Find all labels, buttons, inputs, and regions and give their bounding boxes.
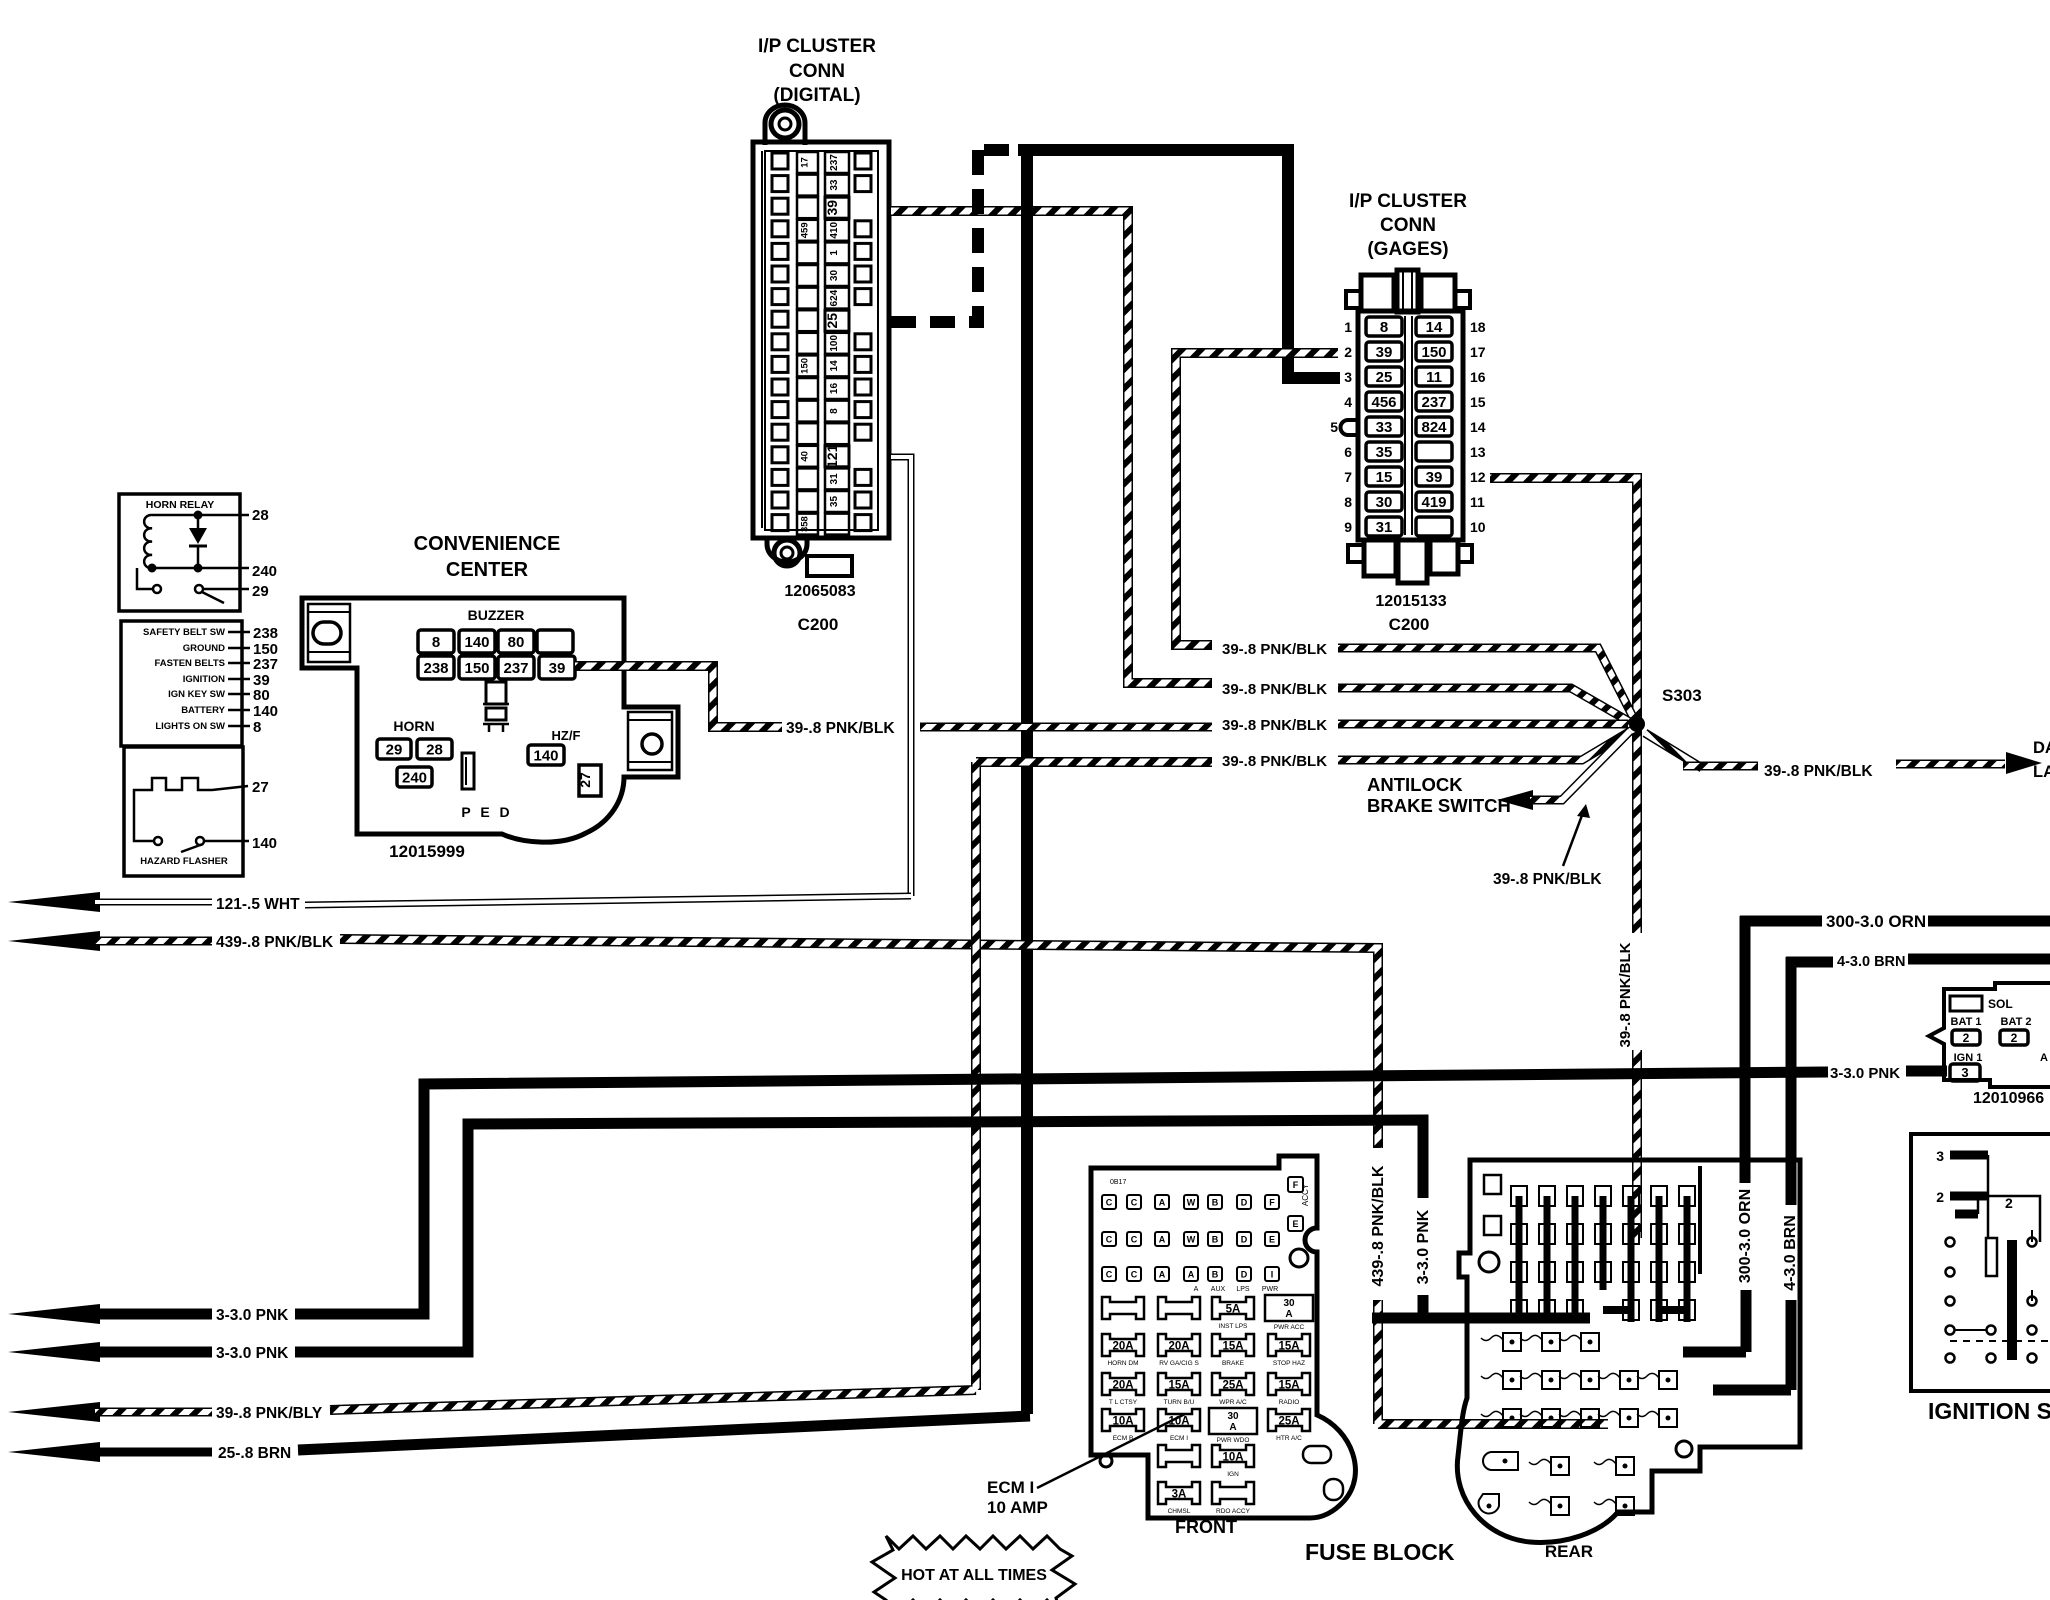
svg-text:FRONT: FRONT xyxy=(1175,1517,1237,1537)
svg-text:IGNITION SW: IGNITION SW xyxy=(1928,1398,2050,1424)
svg-text:39-.8 PNK/BLK: 39-.8 PNK/BLK xyxy=(786,720,895,737)
svg-text:INST LPS: INST LPS xyxy=(1219,1323,1248,1330)
svg-text:240: 240 xyxy=(402,769,427,786)
svg-text:RDO ACCY: RDO ACCY xyxy=(1216,1508,1251,1515)
svg-text:P E D: P E D xyxy=(461,804,512,820)
svg-text:ECM I: ECM I xyxy=(987,1478,1034,1497)
svg-text:1: 1 xyxy=(829,250,840,256)
svg-text:A: A xyxy=(1229,1422,1236,1433)
svg-text:2: 2 xyxy=(1344,344,1352,360)
svg-text:18: 18 xyxy=(1470,319,1486,335)
svg-text:14: 14 xyxy=(829,360,840,372)
svg-text:15A: 15A xyxy=(1168,1380,1189,1392)
svg-text:E: E xyxy=(1292,1219,1298,1229)
svg-text:12010966: 12010966 xyxy=(1973,1090,2044,1107)
svg-text:10 AMP: 10 AMP xyxy=(987,1498,1048,1517)
svg-text:HORN DM: HORN DM xyxy=(1107,1360,1138,1367)
svg-text:D: D xyxy=(1241,1270,1248,1280)
svg-text:39-.8 PNK/BLK: 39-.8 PNK/BLK xyxy=(1222,641,1327,658)
svg-text:15A: 15A xyxy=(1278,1380,1299,1392)
svg-text:27: 27 xyxy=(252,779,269,796)
svg-text:S303: S303 xyxy=(1662,686,1702,705)
svg-text:12065083: 12065083 xyxy=(784,583,855,600)
svg-text:IGN: IGN xyxy=(1227,1471,1239,1478)
svg-text:238: 238 xyxy=(423,660,448,677)
svg-text:A: A xyxy=(1188,1270,1195,1280)
svg-text:121: 121 xyxy=(824,444,840,468)
svg-text:4-3.0 BRN: 4-3.0 BRN xyxy=(1837,954,1906,970)
svg-text:237: 237 xyxy=(829,154,840,171)
svg-text:IGNITION: IGNITION xyxy=(183,674,225,685)
svg-text:REAR: REAR xyxy=(1545,1542,1593,1561)
svg-text:10A: 10A xyxy=(1222,1452,1243,1464)
svg-text:39: 39 xyxy=(1376,344,1393,361)
svg-text:WPR A/C: WPR A/C xyxy=(1219,1399,1247,1406)
svg-text:PWR ACC: PWR ACC xyxy=(1274,1324,1305,1331)
svg-text:12015133: 12015133 xyxy=(1375,593,1446,610)
svg-text:BRAKE: BRAKE xyxy=(1222,1360,1245,1367)
svg-text:456: 456 xyxy=(1371,394,1396,411)
svg-text:16: 16 xyxy=(829,383,840,395)
svg-text:BRAKE SWITCH: BRAKE SWITCH xyxy=(1367,795,1511,816)
svg-text:CONN: CONN xyxy=(1380,215,1436,236)
svg-text:15: 15 xyxy=(1470,394,1486,410)
svg-text:20A: 20A xyxy=(1168,1341,1189,1353)
svg-text:33: 33 xyxy=(829,179,840,191)
svg-text:I/P CLUSTER: I/P CLUSTER xyxy=(1349,191,1467,212)
svg-text:3: 3 xyxy=(1961,1065,1968,1080)
svg-text:240: 240 xyxy=(252,563,277,580)
svg-text:39: 39 xyxy=(549,660,566,677)
svg-text:A: A xyxy=(2040,1052,2048,1064)
svg-text:BAT 1: BAT 1 xyxy=(1951,1016,1982,1028)
svg-text:DA: DA xyxy=(2033,739,2050,757)
svg-text:IGN 1: IGN 1 xyxy=(1954,1052,1983,1064)
svg-text:39: 39 xyxy=(1426,469,1443,486)
svg-text:150: 150 xyxy=(464,660,489,677)
svg-text:CENTER: CENTER xyxy=(446,559,529,581)
svg-text:2: 2 xyxy=(1963,1031,1970,1045)
svg-text:35: 35 xyxy=(829,496,840,508)
svg-text:A: A xyxy=(1159,1235,1166,1245)
svg-text:ANTILOCK: ANTILOCK xyxy=(1367,774,1463,795)
svg-text:LPS: LPS xyxy=(1236,1286,1250,1293)
svg-text:39-.8 PNK/BLK: 39-.8 PNK/BLK xyxy=(1222,753,1327,770)
svg-text:140: 140 xyxy=(252,835,277,852)
svg-text:29: 29 xyxy=(386,741,403,758)
svg-text:39: 39 xyxy=(824,200,840,216)
svg-text:30: 30 xyxy=(1376,494,1393,511)
svg-text:(GAGES): (GAGES) xyxy=(1367,239,1448,260)
svg-text:AUX: AUX xyxy=(1211,1286,1226,1293)
svg-text:HOT AT ALL TIMES: HOT AT ALL TIMES xyxy=(901,1567,1047,1584)
svg-text:17: 17 xyxy=(800,157,811,168)
svg-text:2: 2 xyxy=(2005,1195,2013,1211)
svg-text:11: 11 xyxy=(1426,369,1442,386)
svg-text:RV GA/CIG S: RV GA/CIG S xyxy=(1159,1360,1199,1367)
svg-text:39-.8 PNK/BLK: 39-.8 PNK/BLK xyxy=(1222,681,1327,698)
svg-text:12: 12 xyxy=(1470,469,1486,485)
svg-text:16: 16 xyxy=(1470,369,1486,385)
svg-text:LA: LA xyxy=(2033,763,2050,781)
svg-text:1: 1 xyxy=(1344,319,1352,335)
svg-text:5A: 5A xyxy=(1226,1304,1241,1316)
svg-text:4: 4 xyxy=(1344,394,1352,410)
svg-text:121-.5 WHT: 121-.5 WHT xyxy=(216,896,300,913)
svg-text:15: 15 xyxy=(1376,469,1393,486)
svg-text:30: 30 xyxy=(829,270,840,282)
svg-text:SOL: SOL xyxy=(1988,997,2013,1011)
svg-text:B: B xyxy=(1212,1270,1219,1280)
svg-text:14: 14 xyxy=(1470,419,1486,435)
svg-text:237: 237 xyxy=(1421,394,1446,411)
svg-text:HZ/F: HZ/F xyxy=(552,728,581,743)
svg-text:150: 150 xyxy=(1421,344,1446,361)
svg-text:W: W xyxy=(1187,1198,1196,1208)
svg-text:HORN: HORN xyxy=(393,718,434,734)
svg-text:31: 31 xyxy=(829,473,840,485)
svg-text:W: W xyxy=(1187,1235,1196,1245)
svg-text:HAZARD FLASHER: HAZARD FLASHER xyxy=(140,856,228,867)
svg-text:439-.8 PNK/BLK: 439-.8 PNK/BLK xyxy=(1370,1165,1387,1286)
svg-text:2: 2 xyxy=(2011,1031,2018,1045)
svg-text:140: 140 xyxy=(533,747,558,764)
svg-text:300-3.0 ORN: 300-3.0 ORN xyxy=(1737,1189,1754,1283)
svg-text:8: 8 xyxy=(829,408,840,414)
svg-text:C200: C200 xyxy=(1389,615,1430,634)
svg-text:237: 237 xyxy=(253,656,278,673)
svg-text:RADIO: RADIO xyxy=(1279,1399,1300,1406)
svg-text:358: 358 xyxy=(800,516,811,532)
svg-text:8: 8 xyxy=(1344,494,1352,510)
svg-text:25A: 25A xyxy=(1278,1416,1299,1428)
svg-text:20A: 20A xyxy=(1112,1341,1133,1353)
svg-text:100: 100 xyxy=(829,335,840,352)
svg-text:0B17: 0B17 xyxy=(1110,1179,1126,1186)
svg-text:300-3.0 ORN: 300-3.0 ORN xyxy=(1826,912,1926,931)
svg-text:150: 150 xyxy=(800,358,811,374)
svg-text:10A: 10A xyxy=(1112,1416,1133,1428)
svg-text:31: 31 xyxy=(1376,519,1393,536)
svg-text:25A: 25A xyxy=(1222,1380,1243,1392)
svg-text:BAT 2: BAT 2 xyxy=(2001,1016,2032,1028)
svg-text:9: 9 xyxy=(1344,519,1352,535)
svg-text:39-.8 PNK/BLK: 39-.8 PNK/BLK xyxy=(1617,942,1634,1047)
svg-text:B: B xyxy=(1212,1198,1219,1208)
svg-text:ECM I: ECM I xyxy=(1170,1435,1188,1442)
svg-text:80: 80 xyxy=(508,634,525,651)
svg-text:140: 140 xyxy=(253,703,278,720)
svg-text:7: 7 xyxy=(1344,469,1352,485)
svg-text:F: F xyxy=(1293,1180,1299,1190)
svg-text:A: A xyxy=(1194,1286,1199,1293)
svg-text:3: 3 xyxy=(1344,369,1352,385)
svg-text:C200: C200 xyxy=(798,615,839,634)
svg-text:6: 6 xyxy=(1344,444,1352,460)
svg-text:CHMSL: CHMSL xyxy=(1168,1508,1191,1515)
svg-text:8: 8 xyxy=(1380,319,1388,336)
svg-text:15A: 15A xyxy=(1278,1341,1299,1353)
svg-text:30: 30 xyxy=(1283,1298,1295,1309)
svg-text:CONN: CONN xyxy=(789,61,845,82)
svg-text:39-.8 PNK/BLY: 39-.8 PNK/BLY xyxy=(216,1405,323,1422)
svg-text:8: 8 xyxy=(432,634,440,651)
svg-text:29: 29 xyxy=(252,583,269,600)
svg-text:SAFETY BELT SW: SAFETY BELT SW xyxy=(143,627,225,638)
svg-text:3-3.0 PNK: 3-3.0 PNK xyxy=(216,1307,289,1324)
svg-text:17: 17 xyxy=(1470,344,1486,360)
svg-text:PWR: PWR xyxy=(1262,1286,1278,1293)
svg-text:8: 8 xyxy=(253,719,261,736)
svg-text:27: 27 xyxy=(577,772,593,788)
svg-text:14: 14 xyxy=(1426,319,1443,336)
svg-text:C: C xyxy=(1131,1198,1138,1208)
svg-text:3-3.0 PNK: 3-3.0 PNK xyxy=(216,1345,289,1362)
svg-text:824: 824 xyxy=(1421,419,1447,436)
svg-text:5: 5 xyxy=(1330,419,1338,435)
svg-text:624: 624 xyxy=(829,289,840,306)
svg-text:30: 30 xyxy=(1227,1411,1239,1422)
svg-text:33: 33 xyxy=(1376,419,1393,436)
svg-text:F: F xyxy=(1269,1198,1275,1208)
svg-text:4-3.0 BRN: 4-3.0 BRN xyxy=(1782,1215,1799,1291)
svg-text:25-.8 BRN: 25-.8 BRN xyxy=(218,1445,291,1462)
svg-text:11: 11 xyxy=(1470,494,1485,510)
svg-text:GROUND: GROUND xyxy=(183,643,225,654)
svg-text:CONVENIENCE: CONVENIENCE xyxy=(414,533,561,555)
svg-text:T L CTSY: T L CTSY xyxy=(1109,1399,1138,1406)
svg-text:3A: 3A xyxy=(1172,1489,1187,1501)
svg-text:I: I xyxy=(1271,1270,1274,1280)
svg-text:I/P CLUSTER: I/P CLUSTER xyxy=(758,36,876,57)
svg-text:D: D xyxy=(1241,1198,1248,1208)
svg-text:PWR WDO: PWR WDO xyxy=(1217,1437,1250,1444)
svg-text:FUSE BLOCK: FUSE BLOCK xyxy=(1305,1539,1455,1565)
svg-text:C: C xyxy=(1106,1198,1113,1208)
svg-text:459: 459 xyxy=(800,222,811,238)
svg-text:410: 410 xyxy=(829,222,840,239)
svg-text:3-3.0 PNK: 3-3.0 PNK xyxy=(1415,1209,1432,1284)
svg-text:140: 140 xyxy=(464,634,489,651)
svg-text:BUZZER: BUZZER xyxy=(468,607,525,623)
svg-text:35: 35 xyxy=(1376,444,1393,461)
svg-text:ACCY: ACCY xyxy=(1301,1183,1310,1206)
svg-text:E: E xyxy=(1269,1235,1275,1245)
svg-text:LIGHTS ON SW: LIGHTS ON SW xyxy=(155,721,225,732)
svg-text:39-.8 PNK/BLK: 39-.8 PNK/BLK xyxy=(1222,717,1327,734)
svg-text:25: 25 xyxy=(824,313,840,329)
svg-text:12015999: 12015999 xyxy=(389,842,465,861)
svg-text:C: C xyxy=(1131,1235,1138,1245)
svg-text:2: 2 xyxy=(1936,1189,1944,1205)
svg-text:HORN RELAY: HORN RELAY xyxy=(146,499,214,511)
svg-text:FASTEN BELTS: FASTEN BELTS xyxy=(154,658,225,669)
svg-text:237: 237 xyxy=(503,660,528,677)
svg-text:3: 3 xyxy=(1936,1148,1944,1164)
svg-text:238: 238 xyxy=(253,625,278,642)
svg-text:40: 40 xyxy=(800,451,811,462)
svg-text:B: B xyxy=(1212,1235,1219,1245)
svg-text:25: 25 xyxy=(1376,369,1393,386)
svg-text:10: 10 xyxy=(1470,519,1486,535)
svg-text:C: C xyxy=(1106,1270,1113,1280)
svg-text:3-3.0 PNK: 3-3.0 PNK xyxy=(1830,1065,1900,1082)
svg-text:39-.8 PNK/BLK: 39-.8 PNK/BLK xyxy=(1493,871,1602,888)
svg-text:A: A xyxy=(1285,1309,1292,1320)
svg-text:D: D xyxy=(1241,1235,1248,1245)
svg-text:80: 80 xyxy=(253,687,270,704)
svg-text:20A: 20A xyxy=(1112,1380,1133,1392)
svg-text:13: 13 xyxy=(1470,444,1486,460)
svg-text:BATTERY: BATTERY xyxy=(181,705,225,716)
svg-text:IGN KEY SW: IGN KEY SW xyxy=(168,689,225,700)
svg-text:C: C xyxy=(1106,1235,1113,1245)
svg-text:439-.8 PNK/BLK: 439-.8 PNK/BLK xyxy=(216,934,334,951)
svg-text:419: 419 xyxy=(1421,494,1446,511)
svg-text:HTR A/C: HTR A/C xyxy=(1276,1435,1302,1442)
svg-text:28: 28 xyxy=(426,741,443,758)
svg-text:TURN B/U: TURN B/U xyxy=(1164,1399,1195,1406)
svg-text:C: C xyxy=(1131,1270,1138,1280)
svg-text:STOP HAZ: STOP HAZ xyxy=(1273,1360,1305,1367)
svg-text:28: 28 xyxy=(252,507,269,524)
svg-text:A: A xyxy=(1159,1198,1166,1208)
svg-text:A: A xyxy=(1159,1270,1166,1280)
svg-text:15A: 15A xyxy=(1222,1341,1243,1353)
svg-text:39-.8 PNK/BLK: 39-.8 PNK/BLK xyxy=(1764,763,1873,780)
